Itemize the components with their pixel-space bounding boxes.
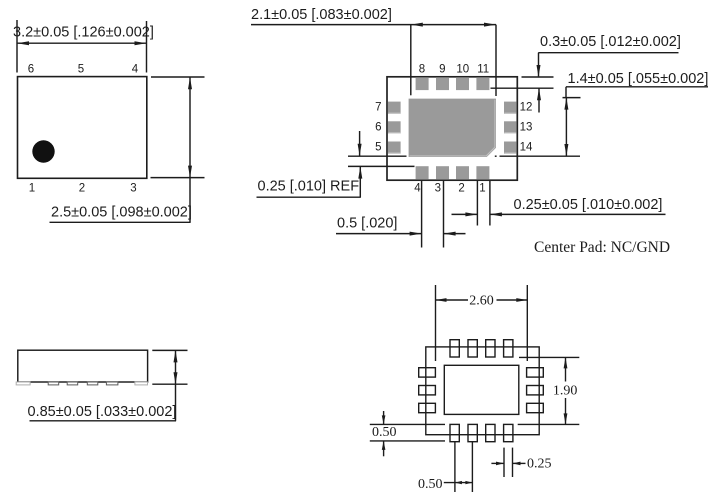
land bottom pad 3 bbox=[486, 424, 495, 441]
extension line 1.90 bottom bbox=[518, 423, 580, 425]
extension line side view bottom bbox=[152, 383, 187, 385]
side view pad stub 5 bbox=[106, 382, 118, 385]
extension line right of 3.2 dim bbox=[146, 21, 148, 73]
svg-text:2: 2 bbox=[79, 183, 85, 195]
dimension line 1.90 vertical with arrows bbox=[564, 357, 568, 424]
pad 10 bbox=[456, 77, 469, 90]
land top pad 3 bbox=[486, 340, 495, 357]
extension line right of 2.1 dim bbox=[495, 25, 497, 96]
pad 12 bbox=[504, 102, 517, 114]
left arrow of 0.5 dim bbox=[444, 232, 466, 236]
land top pad 1 bbox=[450, 340, 459, 357]
up arrow below 0.3 dim bbox=[537, 88, 541, 112]
svg-text:4: 4 bbox=[414, 183, 421, 195]
left arrow toward 0.25 with leader bbox=[513, 462, 526, 466]
center pad (chamfered) bbox=[409, 99, 496, 157]
svg-text:0.50: 0.50 bbox=[418, 477, 443, 492]
svg-text:12: 12 bbox=[520, 101, 533, 113]
svg-text:2.5±0.05 [.098±0.002]: 2.5±0.05 [.098±0.002] bbox=[51, 205, 192, 221]
side view pad stub 3 bbox=[67, 382, 78, 385]
reference line y156 left segment bbox=[348, 155, 407, 157]
pad 13 bbox=[504, 121, 517, 133]
svg-text:9: 9 bbox=[439, 63, 445, 75]
svg-text:4: 4 bbox=[132, 64, 139, 76]
leader underline of 1.4 text bbox=[566, 87, 708, 98]
land top pad 4 bbox=[504, 340, 513, 357]
svg-text:0.85±0.05 [.033±0.002]: 0.85±0.05 [.033±0.002] bbox=[28, 404, 177, 420]
extension line pad3 center bbox=[443, 181, 445, 248]
land bottom pad 4 bbox=[504, 424, 513, 441]
extension line bottom pad2 center bbox=[471, 442, 473, 492]
leader underline of 0.25 REF text bbox=[257, 196, 361, 198]
reference line y156 dot bbox=[495, 155, 497, 157]
side view pad stub 4 bbox=[87, 382, 98, 385]
land bottom pad 1 bbox=[450, 424, 459, 441]
pad 4 bbox=[416, 166, 429, 179]
svg-text:0.25 [.010] REF: 0.25 [.010] REF bbox=[258, 179, 360, 195]
side view pad stub 1 bbox=[16, 382, 30, 385]
extension line left of 3.2 dim bbox=[16, 20, 18, 73]
extension line 1.4 top bbox=[563, 97, 581, 99]
extension line 0.25 right bbox=[512, 448, 514, 477]
leader line 0.5 with right arrow bbox=[336, 232, 422, 236]
svg-text:3: 3 bbox=[130, 183, 136, 195]
svg-text:1.4±0.05 [.055±0.002]: 1.4±0.05 [.055±0.002] bbox=[568, 71, 709, 87]
svg-text:Center Pad: NC/GND: Center Pad: NC/GND bbox=[534, 239, 670, 256]
svg-text:10: 10 bbox=[456, 63, 469, 75]
pad 2 bbox=[456, 166, 469, 179]
land right pad 2 bbox=[527, 386, 544, 395]
pad 14 bbox=[504, 142, 517, 154]
extension line 0.25 left bbox=[503, 448, 505, 477]
land pattern outline bbox=[426, 347, 539, 435]
side view pad stub 6 bbox=[135, 382, 148, 385]
pad 9 bbox=[436, 77, 449, 90]
dimension 0.50 pitch leader and double arrow bbox=[444, 481, 473, 484]
land left pad 1 bbox=[419, 368, 436, 377]
land center pad outline bbox=[444, 365, 519, 414]
svg-text:11: 11 bbox=[477, 63, 489, 75]
svg-text:0.5 [.020]: 0.5 [.020] bbox=[337, 216, 397, 232]
reference line y156 right segment bbox=[500, 155, 581, 157]
land bottom pad 2 bbox=[468, 424, 477, 441]
dimension line 3.2 with arrows bbox=[17, 41, 147, 45]
pad 8 bbox=[416, 77, 429, 90]
pad 11 bbox=[476, 77, 489, 90]
right arrow toward 0.25 bbox=[491, 462, 504, 466]
svg-text:0.50: 0.50 bbox=[372, 425, 397, 440]
svg-text:1: 1 bbox=[479, 183, 485, 195]
leader underline of 0.3 text with down arrow bbox=[537, 53, 679, 77]
side view body outline bbox=[18, 350, 148, 382]
side pad bevels bbox=[388, 113, 516, 153]
extension line pad top row upper bbox=[522, 76, 554, 78]
extension line pad1 left bbox=[476, 181, 478, 226]
svg-text:2: 2 bbox=[458, 183, 464, 195]
leader underline of 0.85 text bbox=[30, 420, 177, 422]
leader underline of 2.5 text bbox=[50, 221, 191, 223]
land right pad 1 bbox=[527, 368, 544, 377]
pin 1 index dot bbox=[32, 140, 54, 162]
extension line 2.60 left bbox=[435, 285, 437, 361]
svg-text:8: 8 bbox=[419, 63, 425, 75]
extension line top right of body bbox=[151, 76, 205, 78]
extension line pad4 center bbox=[421, 181, 423, 248]
dimension line 2.60 with arrows bbox=[436, 298, 528, 302]
top view package body outline bbox=[18, 77, 147, 179]
svg-text:0.3±0.05 [.012±0.002]: 0.3±0.05 [.012±0.002] bbox=[540, 34, 681, 50]
svg-text:14: 14 bbox=[520, 142, 533, 154]
dimension line 0.85 vertical with arrows bbox=[174, 350, 178, 420]
svg-text:7: 7 bbox=[375, 102, 381, 114]
down arrow above 0.25 REF gap bbox=[358, 131, 362, 156]
svg-text:2.60: 2.60 bbox=[469, 294, 494, 309]
extension line bottom right of body bbox=[151, 177, 205, 179]
svg-text:6: 6 bbox=[28, 64, 34, 76]
extension line 2.60 right bbox=[526, 285, 528, 361]
dimension line 2.5 vertical with arrows bbox=[188, 77, 192, 222]
svg-text:1: 1 bbox=[29, 183, 35, 195]
extension line left of 2.1 dim bbox=[410, 25, 412, 96]
bottom view package outline bbox=[387, 77, 517, 180]
reference line 0.50 left upper bbox=[370, 423, 445, 425]
extension line side view top bbox=[152, 349, 187, 351]
dimension line 2.1 with arrows bbox=[251, 23, 496, 27]
pad 7 bbox=[388, 102, 401, 114]
pad 5 bbox=[388, 142, 401, 154]
svg-text:5: 5 bbox=[375, 142, 381, 154]
svg-text:13: 13 bbox=[520, 121, 533, 133]
extension line bottom pad1 center bbox=[454, 442, 456, 492]
svg-text:1.90: 1.90 bbox=[553, 384, 578, 399]
extension line pad top row lower bbox=[491, 87, 554, 89]
svg-text:3.2±0.05 [.126±0.002]: 3.2±0.05 [.126±0.002] bbox=[13, 25, 154, 41]
svg-text:6: 6 bbox=[375, 121, 381, 133]
down arrow above left 0.50 bbox=[382, 411, 386, 424]
land left pad 2 bbox=[419, 386, 436, 395]
right arrow of 0.25 pad width dim bbox=[452, 212, 478, 216]
svg-text:0.25±0.05 [.010±0.002]: 0.25±0.05 [.010±0.002] bbox=[514, 197, 663, 213]
svg-text:3: 3 bbox=[435, 183, 441, 195]
land right pad 3 bbox=[527, 403, 544, 412]
up arrow below left 0.50 bbox=[382, 441, 386, 456]
extension line 1.90 top bbox=[519, 356, 579, 358]
pad 3 bbox=[436, 166, 449, 179]
extension line pad1 right bbox=[489, 181, 491, 226]
reference line 0.50 left lower bbox=[370, 440, 445, 442]
pad 6 bbox=[388, 121, 401, 133]
up arrow below 0.25 REF gap with leader bbox=[358, 167, 362, 198]
svg-text:5: 5 bbox=[78, 64, 84, 76]
reference line y166 bbox=[348, 165, 415, 167]
dimension line 1.4 vertical with arrows bbox=[564, 98, 568, 156]
pad 1 bbox=[476, 166, 489, 179]
land top pad 2 bbox=[468, 340, 477, 357]
svg-text:0.25: 0.25 bbox=[527, 457, 552, 472]
land left pad 3 bbox=[419, 403, 436, 412]
dimension text 0.25 pad width with leader left arrow bbox=[490, 212, 666, 216]
svg-text:2.1±0.05 [.083±0.002]: 2.1±0.05 [.083±0.002] bbox=[251, 7, 392, 23]
side view pad stub 2 bbox=[48, 382, 59, 385]
